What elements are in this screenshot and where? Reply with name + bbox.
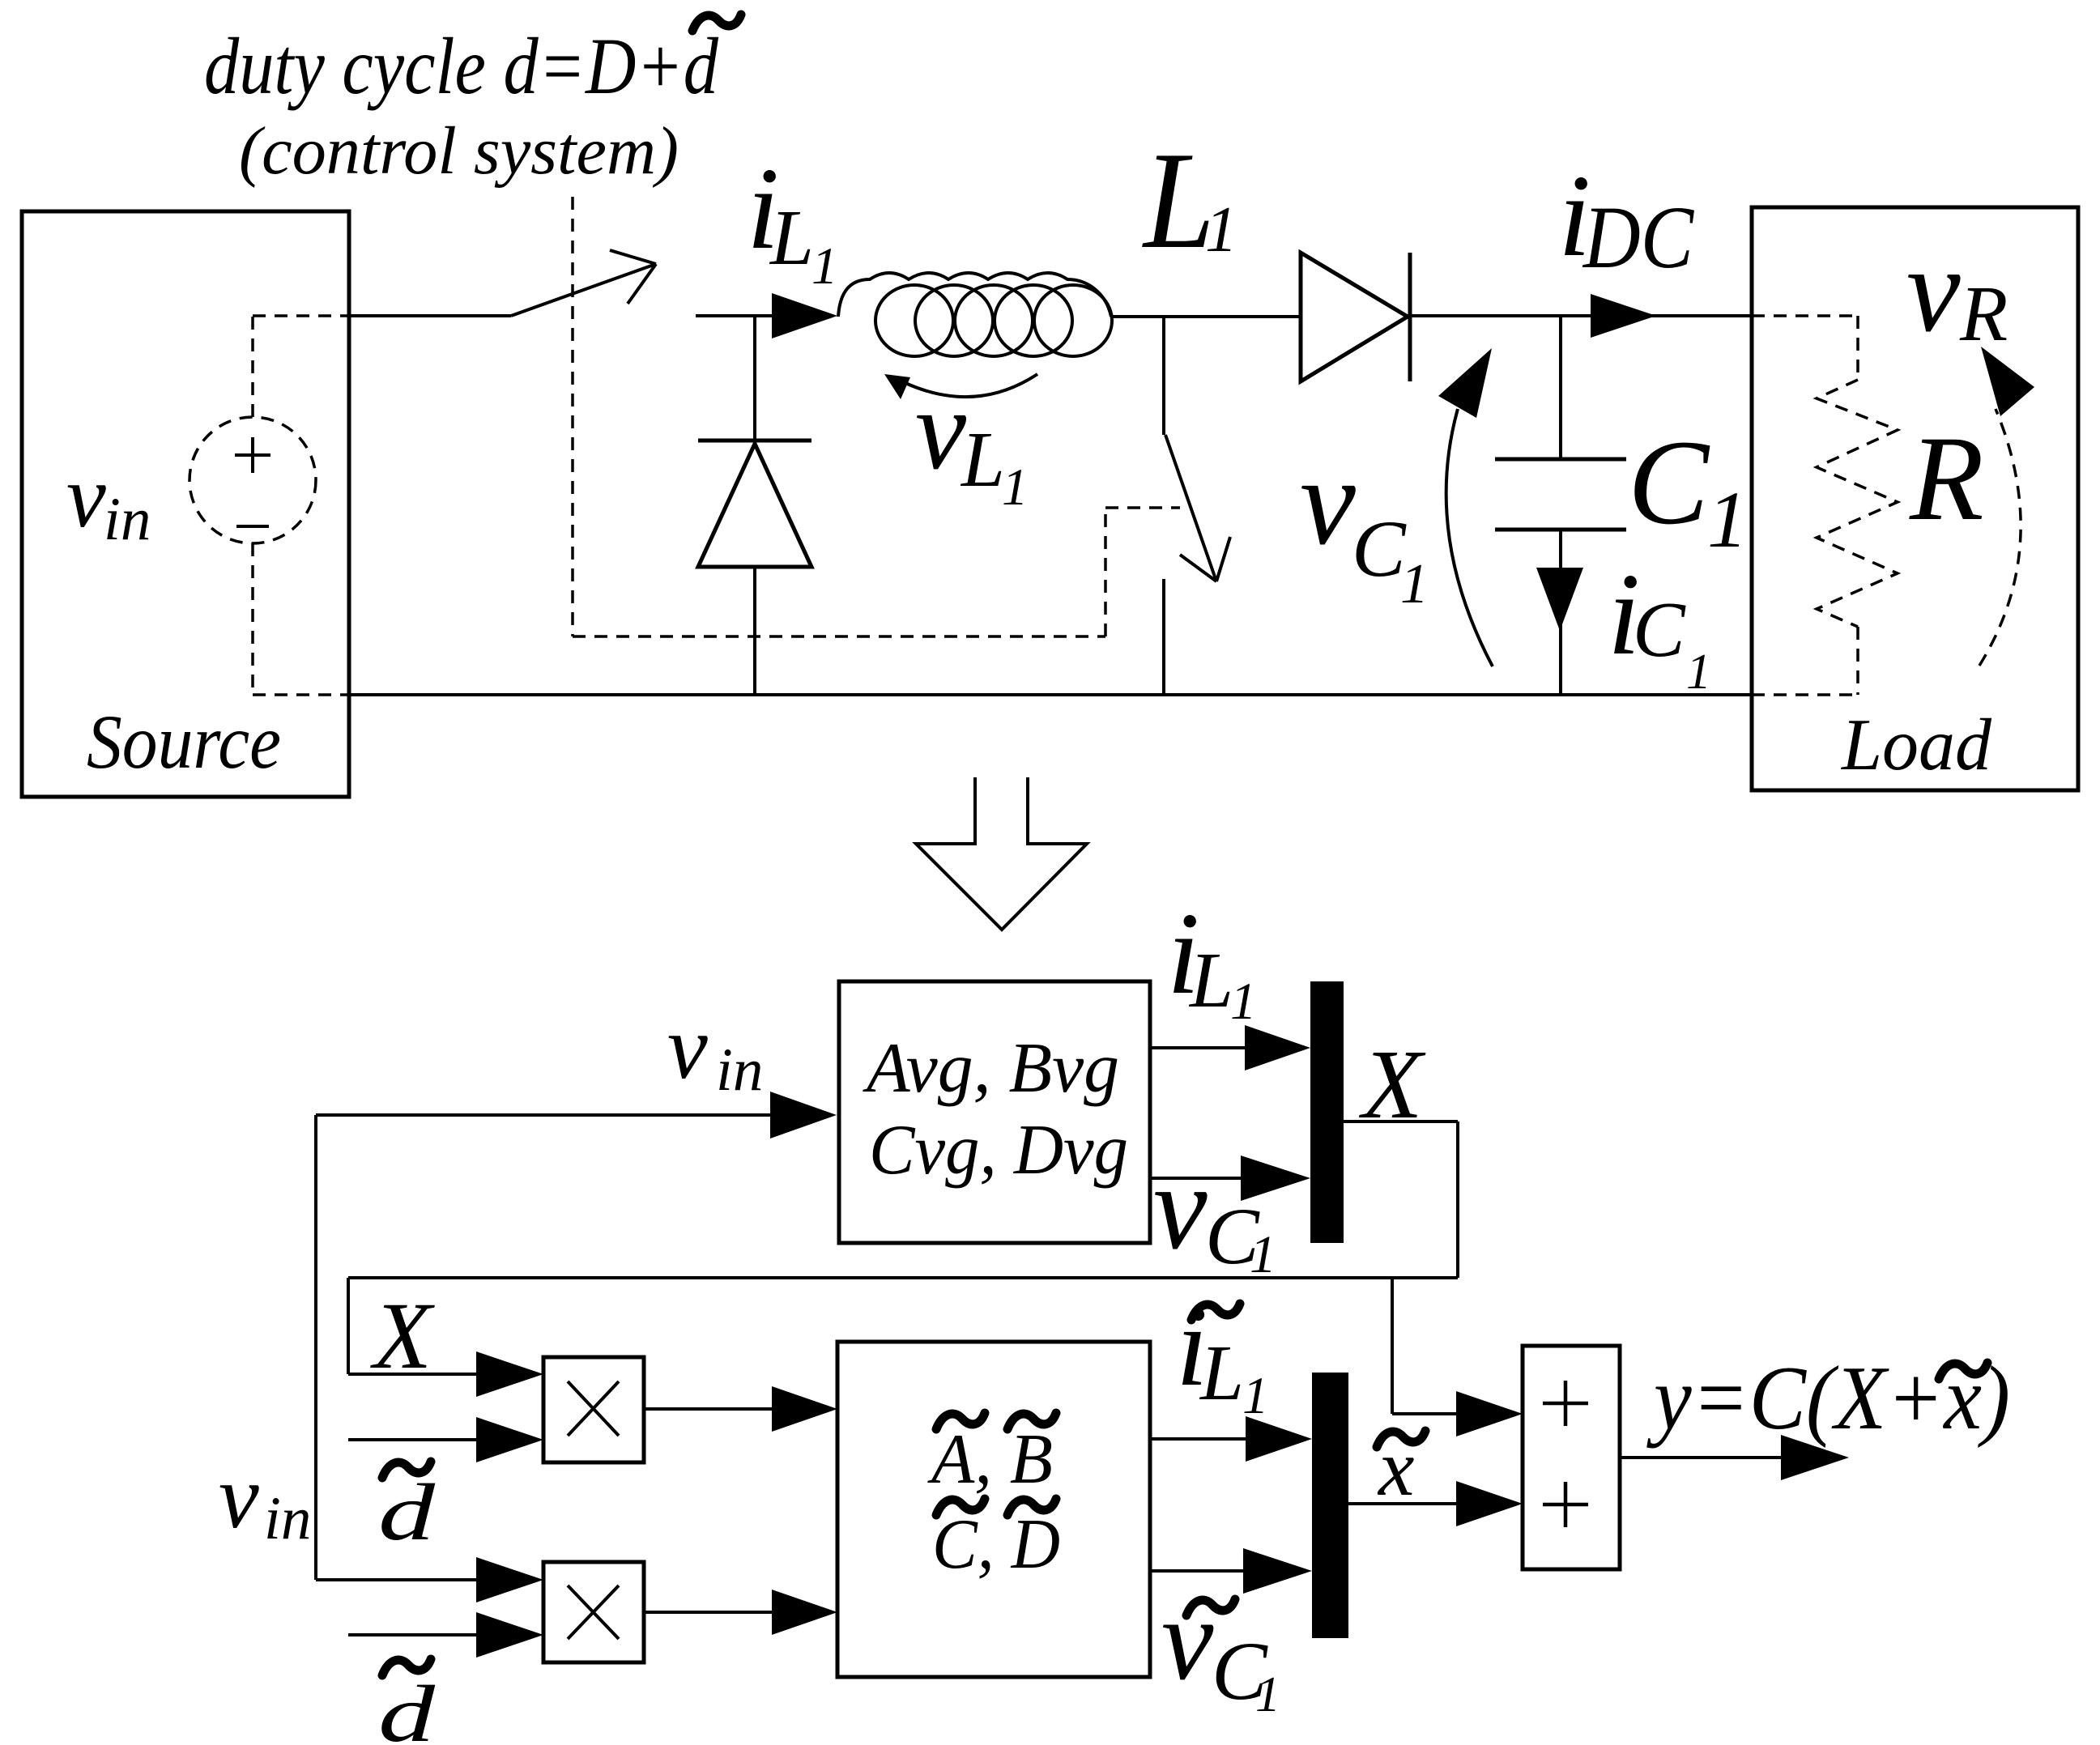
voltage source minus	[236, 525, 269, 528]
svg-text:v: v	[66, 447, 106, 546]
arrow mult1 into AB	[772, 1386, 837, 1432]
arrow X into mult1	[476, 1351, 543, 1397]
svg-text:A, B: A, B	[927, 1420, 1053, 1499]
wire vin to mult2	[316, 1578, 476, 1581]
svg-text:L: L	[769, 194, 814, 281]
summing block	[1523, 1346, 1620, 1569]
label vR	[1906, 223, 2008, 357]
dashed control line	[573, 197, 1180, 636]
wire diode to load	[1410, 314, 1752, 317]
arrow arc vC1	[1438, 348, 1493, 666]
svg-text:L: L	[1141, 124, 1215, 278]
label vin 2	[667, 998, 763, 1104]
Avg block	[839, 981, 1150, 1243]
svg-text:X: X	[370, 1283, 435, 1389]
svg-text:1: 1	[1400, 553, 1429, 615]
series diode D2	[1301, 253, 1410, 381]
wire X out	[1344, 1121, 1458, 1278]
svg-text:L: L	[960, 416, 1005, 503]
svg-text:1: 1	[811, 237, 838, 296]
svg-text:1: 1	[1250, 1225, 1276, 1284]
wire x tilde out	[1348, 1502, 1456, 1505]
arrow arc vL1	[884, 374, 1037, 399]
block AB	[837, 1342, 1150, 1677]
svg-text:Avg, Bvg: Avg, Bvg	[863, 1029, 1119, 1108]
plus sign 1	[1543, 1381, 1588, 1426]
svg-text:v: v	[1300, 432, 1356, 571]
label vin 3	[219, 1447, 311, 1552]
arrow d2 into mult2	[476, 1612, 543, 1658]
arrow AB out2	[1243, 1548, 1312, 1594]
switch S2 lead top	[1162, 316, 1165, 435]
label L1	[1141, 124, 1237, 278]
resistor R zigzag	[1817, 380, 1898, 627]
label d1 tilde	[378, 1462, 436, 1557]
capacitor C1 lead bottom	[1559, 530, 1562, 695]
wire AB out2	[1150, 1569, 1243, 1573]
source box	[22, 211, 349, 797]
svg-text:C: C	[1628, 415, 1710, 550]
voltage source plus	[235, 437, 270, 473]
svg-text:C: C	[1633, 586, 1686, 673]
svg-text:L: L	[1188, 937, 1233, 1024]
svg-text:1: 1	[1707, 475, 1748, 564]
arrow iL1	[772, 293, 837, 338]
svg-text:v: v	[1906, 223, 1961, 357]
wire Avg out1	[1150, 1046, 1245, 1049]
svg-text:C, D: C, D	[932, 1505, 1060, 1584]
multiplier M2	[543, 1562, 644, 1662]
label vL1	[915, 365, 1029, 517]
label iL1 tilde	[1176, 1282, 1269, 1425]
bus bar X	[1310, 981, 1344, 1243]
multiplier M1	[543, 1357, 644, 1462]
wire vin vertical	[314, 1115, 317, 1580]
bus bar x tilde	[1312, 1373, 1348, 1638]
svg-text:d: d	[378, 1467, 436, 1557]
switch S2 blade	[1165, 435, 1230, 581]
arrow out1	[1245, 1025, 1310, 1070]
dashed lead vin top	[253, 316, 348, 417]
svg-text:d: d	[378, 1669, 436, 1745]
shunt diode lead bottom	[753, 567, 756, 695]
svg-text:Source: Source	[87, 699, 281, 785]
svg-text:v: v	[667, 998, 708, 1098]
label vC1 2	[1153, 1140, 1276, 1284]
svg-text:in: in	[716, 1036, 763, 1104]
wire mult1 out	[644, 1407, 772, 1411]
arrow iC1	[1536, 568, 1583, 631]
label vC1 tilde	[1161, 1575, 1280, 1722]
svg-text:1: 1	[1205, 194, 1237, 266]
svg-text:v: v	[1161, 1575, 1214, 1705]
wire d1	[348, 1438, 476, 1441]
label y=C(X+x)	[1646, 1348, 2010, 1449]
big down arrow	[916, 777, 1087, 930]
arrow AB out1	[1246, 1416, 1312, 1462]
label d2 tilde	[378, 1659, 436, 1745]
svg-text:in: in	[264, 1485, 311, 1552]
svg-text:Cvg, Dvg: Cvg, Dvg	[869, 1111, 1128, 1190]
arrow iDC	[1591, 294, 1656, 338]
svg-text:in: in	[104, 486, 151, 553]
wire d2	[348, 1633, 476, 1636]
wire inductor to diode	[1111, 315, 1301, 318]
wire AB out1	[1150, 1437, 1246, 1441]
label iL1 2	[1167, 889, 1257, 1031]
svg-text:C: C	[1352, 504, 1407, 594]
inductor L1 coil	[838, 273, 1112, 356]
wire vin to Avg block	[316, 1113, 770, 1117]
arrow x tilde into plus	[1456, 1481, 1523, 1526]
svg-text:L: L	[1199, 1330, 1244, 1416]
capacitor C1 lead top	[1559, 316, 1562, 459]
voltage source vin circle	[190, 417, 316, 543]
dashed lead vin bottom	[253, 543, 348, 695]
svg-text:R: R	[1909, 411, 1984, 546]
label iC1	[1608, 550, 1711, 700]
load box	[1752, 207, 2078, 790]
svg-text:1: 1	[1255, 1667, 1280, 1722]
svg-text:1: 1	[1230, 973, 1257, 1031]
svg-text:1: 1	[1686, 645, 1711, 700]
switch S1 blade	[511, 250, 656, 316]
arrow mult2 into AB	[772, 1590, 837, 1635]
arrow X into plus	[1456, 1391, 1523, 1436]
svg-text:1: 1	[1242, 1367, 1269, 1425]
label iDC	[1558, 151, 1694, 287]
arrow arc vR dashed	[1979, 347, 2034, 666]
label A B tilde	[927, 1413, 1056, 1499]
capacitor C1	[1495, 459, 1626, 530]
svg-text:duty cycle d=D+d: duty cycle d=D+d	[204, 21, 719, 111]
svg-text:(control system): (control system)	[239, 113, 679, 189]
svg-text:v: v	[219, 1447, 259, 1547]
svg-text:v: v	[915, 365, 967, 493]
bottom wire	[348, 693, 1752, 696]
label iL1	[747, 144, 838, 296]
shunt diode D1	[698, 441, 811, 567]
svg-text:1: 1	[1002, 458, 1029, 517]
arrow out2	[1241, 1156, 1310, 1201]
label C1	[1628, 415, 1748, 564]
svg-text:DC: DC	[1582, 188, 1694, 287]
arrow d1 into mult1	[476, 1417, 543, 1462]
svg-text:Load: Load	[1840, 704, 1991, 785]
wire X down to plus	[1392, 1278, 1456, 1414]
svg-text:R: R	[1959, 270, 2008, 357]
wire output y	[1620, 1456, 1781, 1459]
label duty cycle d=D+d~	[204, 15, 741, 111]
wire after switch	[696, 314, 772, 317]
label vC1	[1300, 432, 1429, 615]
arrow vin into Avg	[770, 1092, 837, 1139]
wire mult2 out	[644, 1611, 772, 1614]
switch S2 lead bottom	[1162, 579, 1165, 695]
wire top left	[348, 314, 511, 317]
plus sign 2	[1543, 1482, 1588, 1527]
wire X bus	[348, 1278, 1458, 1374]
label C D tilde	[932, 1499, 1060, 1584]
label vin	[66, 447, 151, 553]
arrow vin into mult2	[476, 1557, 543, 1602]
dashed lead load top	[1752, 316, 1858, 380]
shunt diode lead top	[753, 316, 756, 442]
svg-text:v: v	[1153, 1140, 1208, 1275]
arrow output y	[1781, 1435, 1849, 1480]
dashed lead load bottom	[1752, 627, 1858, 695]
label x tilde	[1377, 1423, 1425, 1513]
wire Avg out2	[1150, 1177, 1241, 1180]
